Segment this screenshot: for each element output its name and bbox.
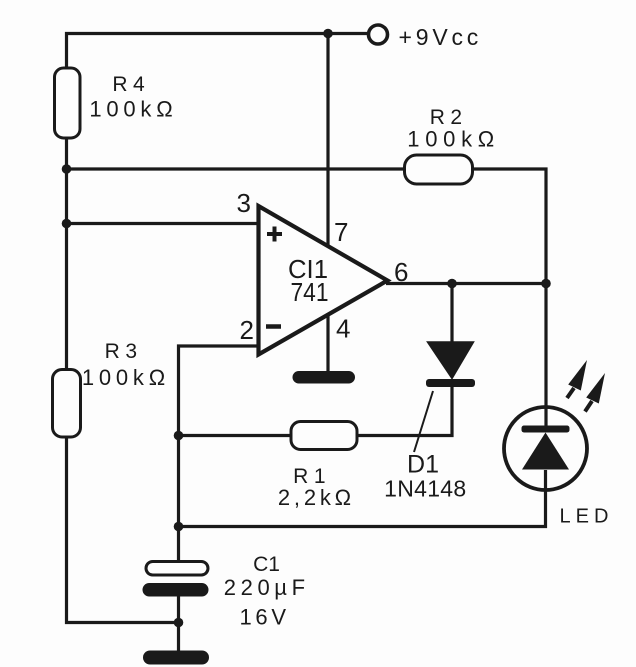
LED arrow 1 [567, 360, 587, 398]
wire pin 7 supply [326, 34, 329, 247]
wire output pin 6 [386, 282, 546, 285]
wire R1 right up to D1 cathode [357, 387, 452, 436]
resistor R4 [55, 68, 178, 138]
node output/LED junction [541, 279, 551, 289]
wire C1 bottom plate to ground [177, 597, 180, 652]
capacitor C1 [143, 553, 310, 630]
wire pin2 to R1 left node [179, 346, 259, 436]
node supply junction at pin7 rail [323, 29, 333, 39]
node pin3 input junction [62, 219, 72, 229]
svg-text:3: 3 [237, 188, 251, 218]
svg-text:100kΩ: 100kΩ [407, 127, 500, 152]
ground bar at op-amp pin 4 [293, 371, 356, 384]
node output/D1 junction [447, 279, 457, 289]
wire left rail R4 bottom to R3 top [65, 138, 68, 370]
svg-text:2: 2 [240, 315, 254, 345]
LED [504, 407, 613, 528]
wire node to R1 left [179, 434, 292, 437]
svg-text:C1: C1 [253, 553, 280, 576]
wire pin 4 to ground [326, 315, 329, 372]
wire C1 node down to C1 top plate [177, 436, 180, 562]
plus marking non-inverting input [267, 227, 282, 242]
svg-text:2,2kΩ: 2,2kΩ [278, 485, 355, 510]
svg-text:16V: 16V [239, 605, 289, 630]
wire pin3 input [67, 222, 259, 225]
wire output node to D1 anode [450, 284, 453, 344]
node bottom rail junction [174, 522, 184, 532]
wire feedback rail y=169 to R2 left [67, 167, 405, 170]
svg-text:7: 7 [334, 217, 348, 247]
svg-text:R3: R3 [105, 340, 143, 363]
svg-text:1N4148: 1N4148 [384, 476, 466, 502]
svg-text:+9Vcc: +9Vcc [399, 24, 483, 50]
svg-text:6: 6 [394, 257, 408, 287]
wire LED bottom to bottom rail to C1 node [179, 470, 546, 527]
node R1/pin2 junction [174, 431, 184, 441]
svg-text:LED: LED [560, 506, 614, 528]
svg-text:741: 741 [291, 277, 329, 307]
node C1 ground junction [174, 618, 184, 628]
LED arrow 2 [585, 373, 605, 412]
op-amp U1 CI1 741 [259, 206, 388, 355]
svg-text:220µF: 220µF [224, 575, 310, 600]
wire output node down to LED top [544, 284, 547, 426]
wire top rail from left corner to +9Vcc terminal [67, 34, 368, 69]
diode D1 [384, 342, 475, 502]
ground bar bottom [143, 651, 209, 665]
+9Vcc terminal circle [369, 25, 388, 44]
minus marking inverting input [266, 324, 281, 329]
node R4/R2 feedback junction [62, 164, 72, 174]
wire R2 right to output node [473, 169, 547, 284]
svg-text:100kΩ: 100kΩ [82, 365, 170, 390]
wire left rail R3 bottom down and right to C1 node [67, 437, 179, 623]
resistor R1 [278, 422, 357, 511]
svg-text:R4: R4 [112, 73, 150, 96]
resistor R2 [405, 106, 500, 184]
resistor R3 [53, 340, 170, 437]
svg-text:D1: D1 [407, 451, 439, 479]
svg-text:4: 4 [336, 314, 350, 344]
svg-text:100kΩ: 100kΩ [89, 97, 177, 122]
